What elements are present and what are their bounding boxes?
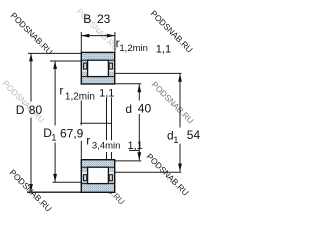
leader pair vline a upper	[106, 97, 108, 140]
leader pair vline a lower	[106, 152, 108, 160]
D1 ext line top	[50, 60, 81, 62]
cage bar left lower	[84, 175, 87, 181]
cage bar right lower	[109, 175, 112, 181]
svg-text:d: d	[125, 102, 132, 116]
flange seam lines upper	[81, 59, 87, 61]
d1 arrow down	[178, 164, 182, 172]
svg-text:r: r	[59, 84, 63, 98]
svg-text:D: D	[16, 103, 25, 117]
B arrow right	[107, 34, 115, 38]
outer+inner ring body upper	[81, 52, 114, 84]
watermark PODSNAB.RU tiles	[1, 6, 196, 213]
leader pair vline b lower	[111, 152, 113, 160]
svg-text:80: 80	[29, 103, 43, 117]
svg-text:54: 54	[187, 128, 201, 142]
d arrow down	[137, 152, 141, 160]
svg-text:r: r	[86, 134, 90, 148]
svg-text:3,4min: 3,4min	[92, 141, 121, 152]
B ext line right	[114, 32, 116, 52]
d1 ext line top	[115, 72, 182, 74]
D arrow down	[29, 184, 33, 192]
B dim line	[81, 35, 115, 37]
roller lower	[88, 167, 109, 183]
svg-text:23: 23	[97, 12, 111, 26]
D1 ext line bottom	[53, 181, 82, 183]
D1 arrow up	[53, 61, 57, 69]
gap notches lower	[82, 172, 87, 174]
leader pair vline b upper	[111, 97, 113, 140]
B arrow left	[81, 34, 89, 38]
D arrow up	[29, 53, 33, 61]
D ext line bottom	[27, 191, 81, 193]
gap notches upper	[82, 70, 87, 72]
svg-text:1,2min: 1,2min	[65, 92, 95, 103]
D ext line top	[28, 52, 81, 54]
svg-text:40: 40	[138, 102, 152, 116]
D dim line lower part	[30, 118, 32, 193]
roller upper	[88, 60, 109, 76]
B ext line left	[80, 32, 82, 52]
svg-text:1: 1	[173, 135, 178, 146]
d1 ext line bottom	[115, 171, 182, 173]
d ext line bottom	[115, 160, 142, 162]
leader vline left lower part	[80, 141, 82, 160]
svg-text:1,2min: 1,2min	[119, 43, 148, 54]
d ext line top	[115, 83, 142, 85]
d1 dim line lower part	[179, 144, 181, 172]
flange seam lines lower	[81, 166, 87, 168]
svg-text:67,9: 67,9	[60, 126, 84, 140]
leader stub for bottom 1,1	[129, 149, 139, 151]
svg-text:1: 1	[51, 133, 56, 144]
d1 arrow up	[178, 74, 182, 82]
leader hline connector	[80, 122, 112, 124]
svg-text:B: B	[83, 12, 91, 26]
cage bar left upper	[84, 63, 87, 69]
d dim line upper part	[138, 84, 140, 100]
cage bar right upper	[109, 63, 112, 69]
d1 dim line upper part	[179, 74, 181, 128]
d dim line lower part	[138, 114, 140, 160]
leader vline left upper part	[80, 101, 82, 126]
D dim line upper part	[30, 53, 32, 101]
ring body lower	[81, 160, 114, 193]
D1 arrow down	[53, 174, 57, 182]
d arrow up	[137, 84, 141, 92]
D1 dim line lower part	[54, 143, 56, 182]
D1 dim line upper part	[54, 61, 56, 126]
svg-text:1,1: 1,1	[156, 43, 171, 55]
